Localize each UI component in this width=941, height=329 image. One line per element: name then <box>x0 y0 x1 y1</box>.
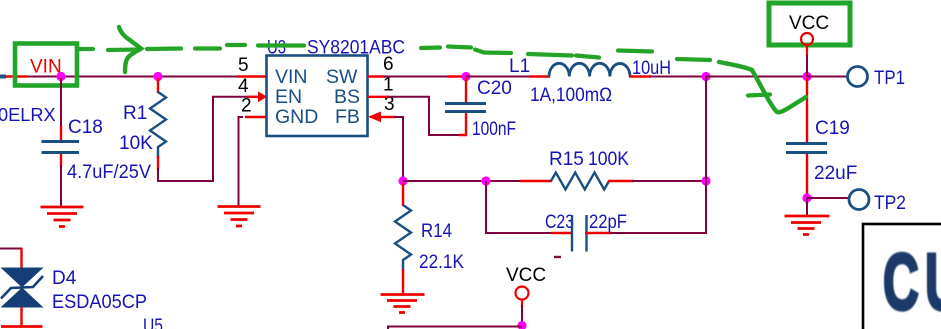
svg-text:TP2: TP2 <box>874 193 906 214</box>
pin 2 red stub (GND) <box>245 116 266 118</box>
capacitor C20 pin top <box>465 78 467 104</box>
capacitor C19 <box>786 144 827 153</box>
resistor R15 pin left <box>520 180 552 182</box>
capacitor C20 pin bottom leads <box>459 111 466 135</box>
pin 5 red stub <box>237 75 266 77</box>
capacitor C19 pin bottom <box>806 154 808 198</box>
green marker check arrow (right) <box>719 62 806 112</box>
stray polarity dash <box>554 256 561 258</box>
wire node to TP2 <box>807 197 849 199</box>
svg-text:10K: 10K <box>119 133 153 154</box>
junction feedback right node <box>701 176 710 185</box>
svg-text:D4: D4 <box>52 268 77 289</box>
svg-text:100nF: 100nF <box>472 119 516 140</box>
svg-text:VCC: VCC <box>506 265 546 286</box>
junction R1 top node <box>153 72 162 81</box>
power port VCC circle <box>801 33 813 45</box>
wire node down to ground <box>806 198 808 215</box>
pin 3 red stub <box>380 116 396 118</box>
test point TP1 <box>848 67 868 87</box>
wire C23 loop right <box>610 181 706 233</box>
capacitor C18 pin bottom <box>60 154 62 167</box>
junction VIN node <box>56 72 65 81</box>
pin 4 red stub <box>247 96 259 98</box>
ground under U3 GND <box>218 207 261 227</box>
svg-text:GND: GND <box>275 106 318 128</box>
svg-text:100K: 100K <box>588 149 629 170</box>
pin 1 BS red stub <box>368 96 389 98</box>
IC U3 body <box>267 56 368 137</box>
svg-text:CU: CU <box>883 238 941 327</box>
green marker tick (right) <box>748 95 770 96</box>
svg-text:22pF: 22pF <box>589 212 627 233</box>
ground under D4 (clipped) <box>1 325 43 328</box>
svg-text:R1: R1 <box>123 103 147 124</box>
power port VCC (top) green highlight box <box>769 3 850 45</box>
capacitor C20 <box>445 104 486 112</box>
wire left lead-in (navy connector stub) <box>0 75 6 79</box>
junction feedback node R14 top <box>398 176 407 185</box>
svg-text:22.1K: 22.1K <box>419 252 464 273</box>
wire red lead into VIN port <box>5 75 27 77</box>
wire VCC node to TP1 <box>807 76 848 78</box>
svg-text:U3: U3 <box>267 38 286 59</box>
svg-text:VCC: VCC <box>789 13 829 34</box>
diode D4 pin bottom <box>20 307 22 327</box>
junction SW node <box>461 72 470 81</box>
junction bottom VCC node <box>517 321 526 329</box>
wire VIN down to C18 <box>60 78 62 128</box>
wire SW to C20 node <box>384 76 449 78</box>
svg-text:TP1: TP1 <box>874 68 905 89</box>
wire SW node to L1 <box>466 76 532 78</box>
resistor R1 pin bottom <box>157 156 159 170</box>
resistor R14 pin bottom <box>402 269 404 294</box>
svg-text:U5: U5 <box>143 316 163 329</box>
wire L1 to VOUT node <box>649 76 706 78</box>
junction VOUT node <box>701 72 710 81</box>
wire bottom rail to U5 <box>388 327 522 329</box>
svg-text:ESDA05CP: ESDA05CP <box>52 292 147 313</box>
wire R1 bottom to EN pin <box>158 97 249 181</box>
wire BS to C20 bottom <box>387 97 461 135</box>
svg-text:2: 2 <box>241 96 252 117</box>
ground under C18 <box>41 207 84 227</box>
power port VCC (bottom) circle <box>516 287 529 300</box>
diode D4 pin top <box>20 248 22 269</box>
wire GND pin to ground <box>239 117 244 206</box>
svg-text:22uF: 22uF <box>814 163 857 184</box>
green marker arrow (left) <box>119 27 141 72</box>
inductor L1 pin left <box>530 75 550 77</box>
capacitor C20 pin rail stub <box>447 75 466 77</box>
junction TP2 node <box>802 193 811 202</box>
svg-text:C18: C18 <box>68 117 103 138</box>
ground under R14 <box>381 295 425 313</box>
pin 3 FB arrow <box>368 112 381 123</box>
junction C23 branch left <box>481 176 490 185</box>
wire R15 to right branch <box>632 180 706 182</box>
resistor R15 <box>551 173 609 190</box>
wire VOUT node to VCC node <box>706 76 807 78</box>
VIN green highlight box <box>15 44 77 86</box>
svg-text:4: 4 <box>238 76 249 97</box>
wire VOUT down to feedback node <box>705 77 707 182</box>
svg-text:5: 5 <box>238 55 249 76</box>
resistor R14 <box>395 205 411 271</box>
svg-text:R14: R14 <box>421 221 452 242</box>
svg-text:C23: C23 <box>545 212 574 233</box>
svg-text:6: 6 <box>383 54 394 75</box>
capacitor C18 pin top <box>60 126 62 141</box>
svg-text:L1: L1 <box>509 56 530 77</box>
inductor L1 pin right <box>629 75 651 77</box>
resistor R1 <box>150 92 166 158</box>
green marker dashed highlight line <box>77 45 710 60</box>
pin 6 SW red stub <box>368 75 386 77</box>
capacitor C23 <box>572 215 587 252</box>
svg-text:BS: BS <box>334 86 360 108</box>
svg-text:VIN: VIN <box>275 66 308 88</box>
wire VCC bottom port down <box>521 300 523 308</box>
svg-text:FB: FB <box>335 106 360 128</box>
wire VCC port down to rail <box>806 45 808 57</box>
svg-text:1A,100mΩ: 1A,100mΩ <box>530 85 612 106</box>
inductor L1 <box>549 63 630 76</box>
logo box (bottom right) <box>863 224 941 329</box>
svg-text:EN: EN <box>275 86 302 108</box>
junction VCC node <box>802 72 811 81</box>
svg-text:C19: C19 <box>815 118 850 139</box>
capacitor C19 pin top <box>806 78 808 144</box>
capacitor C23 pin right <box>585 232 612 234</box>
ground under C19 <box>785 216 830 235</box>
capacitor C18 <box>42 142 80 153</box>
svg-text:C20: C20 <box>477 78 512 99</box>
svg-text:0ELRX: 0ELRX <box>0 105 56 125</box>
wire FB to feedback node <box>394 117 403 181</box>
wire C23 loop left <box>486 181 562 233</box>
test point TP2 <box>849 190 869 210</box>
diode D4 (bidirectional TVS) <box>1 268 44 308</box>
svg-text:4.7uF/25V: 4.7uF/25V <box>67 162 151 183</box>
wire main rail VIN to U3 pin5 <box>27 76 240 78</box>
resistor R14 pin top <box>402 183 404 206</box>
resistor R15 pin right <box>608 180 634 182</box>
wire feedback rail to R15 <box>403 180 522 182</box>
resistor R1 pin top <box>157 78 159 93</box>
svg-text:R15: R15 <box>549 149 584 170</box>
wire to D4 <box>0 248 22 250</box>
capacitor C23 pin left <box>551 232 573 234</box>
pin 4 arrow into EN <box>258 91 267 102</box>
wire C18 to ground <box>60 165 62 206</box>
svg-text:SW: SW <box>326 66 358 88</box>
